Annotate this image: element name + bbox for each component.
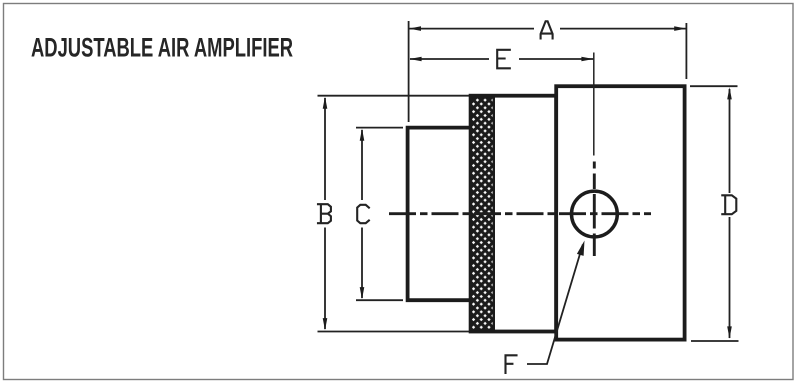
horizontal centerline (389, 212, 651, 215)
letter A (541, 21, 553, 38)
D dimension line (729, 89, 731, 338)
letter C (357, 205, 369, 223)
letter B (318, 204, 331, 223)
B extension lines (318, 96, 470, 332)
small left section (408, 128, 471, 301)
B dimension line (324, 98, 326, 329)
A left arrow (409, 26, 421, 31)
extension line left (A/E) (408, 21, 410, 122)
A right arrow (674, 26, 686, 31)
middle section body (471, 96, 557, 332)
large right section (556, 86, 684, 339)
C dimension line (361, 130, 363, 298)
knurled band (471, 97, 494, 330)
F leader arrow (577, 241, 585, 256)
E right arrow (581, 57, 593, 62)
letter E (497, 50, 510, 69)
A dimension line (409, 28, 686, 30)
C extension lines (356, 128, 403, 301)
F leader (527, 245, 583, 365)
E dimension line (410, 58, 593, 60)
C bottom arrow (360, 287, 365, 299)
B top arrow (323, 97, 328, 109)
E right extension / hole center upper (593, 53, 595, 156)
E left arrow (409, 57, 421, 62)
D bottom arrow (727, 326, 732, 338)
svg-text:ADJUSTABLE AIR AMPLIFIER: ADJUSTABLE AIR AMPLIFIER (31, 33, 293, 63)
letter F (506, 355, 517, 373)
D extension lines (690, 86, 739, 341)
letter D (722, 195, 736, 214)
hole circle F (572, 191, 618, 237)
C top arrow (360, 129, 365, 141)
D top arrow (727, 87, 732, 99)
vertical hole centerline (593, 162, 596, 257)
B bottom arrow (323, 318, 328, 330)
extension line right (A) (685, 23, 687, 79)
